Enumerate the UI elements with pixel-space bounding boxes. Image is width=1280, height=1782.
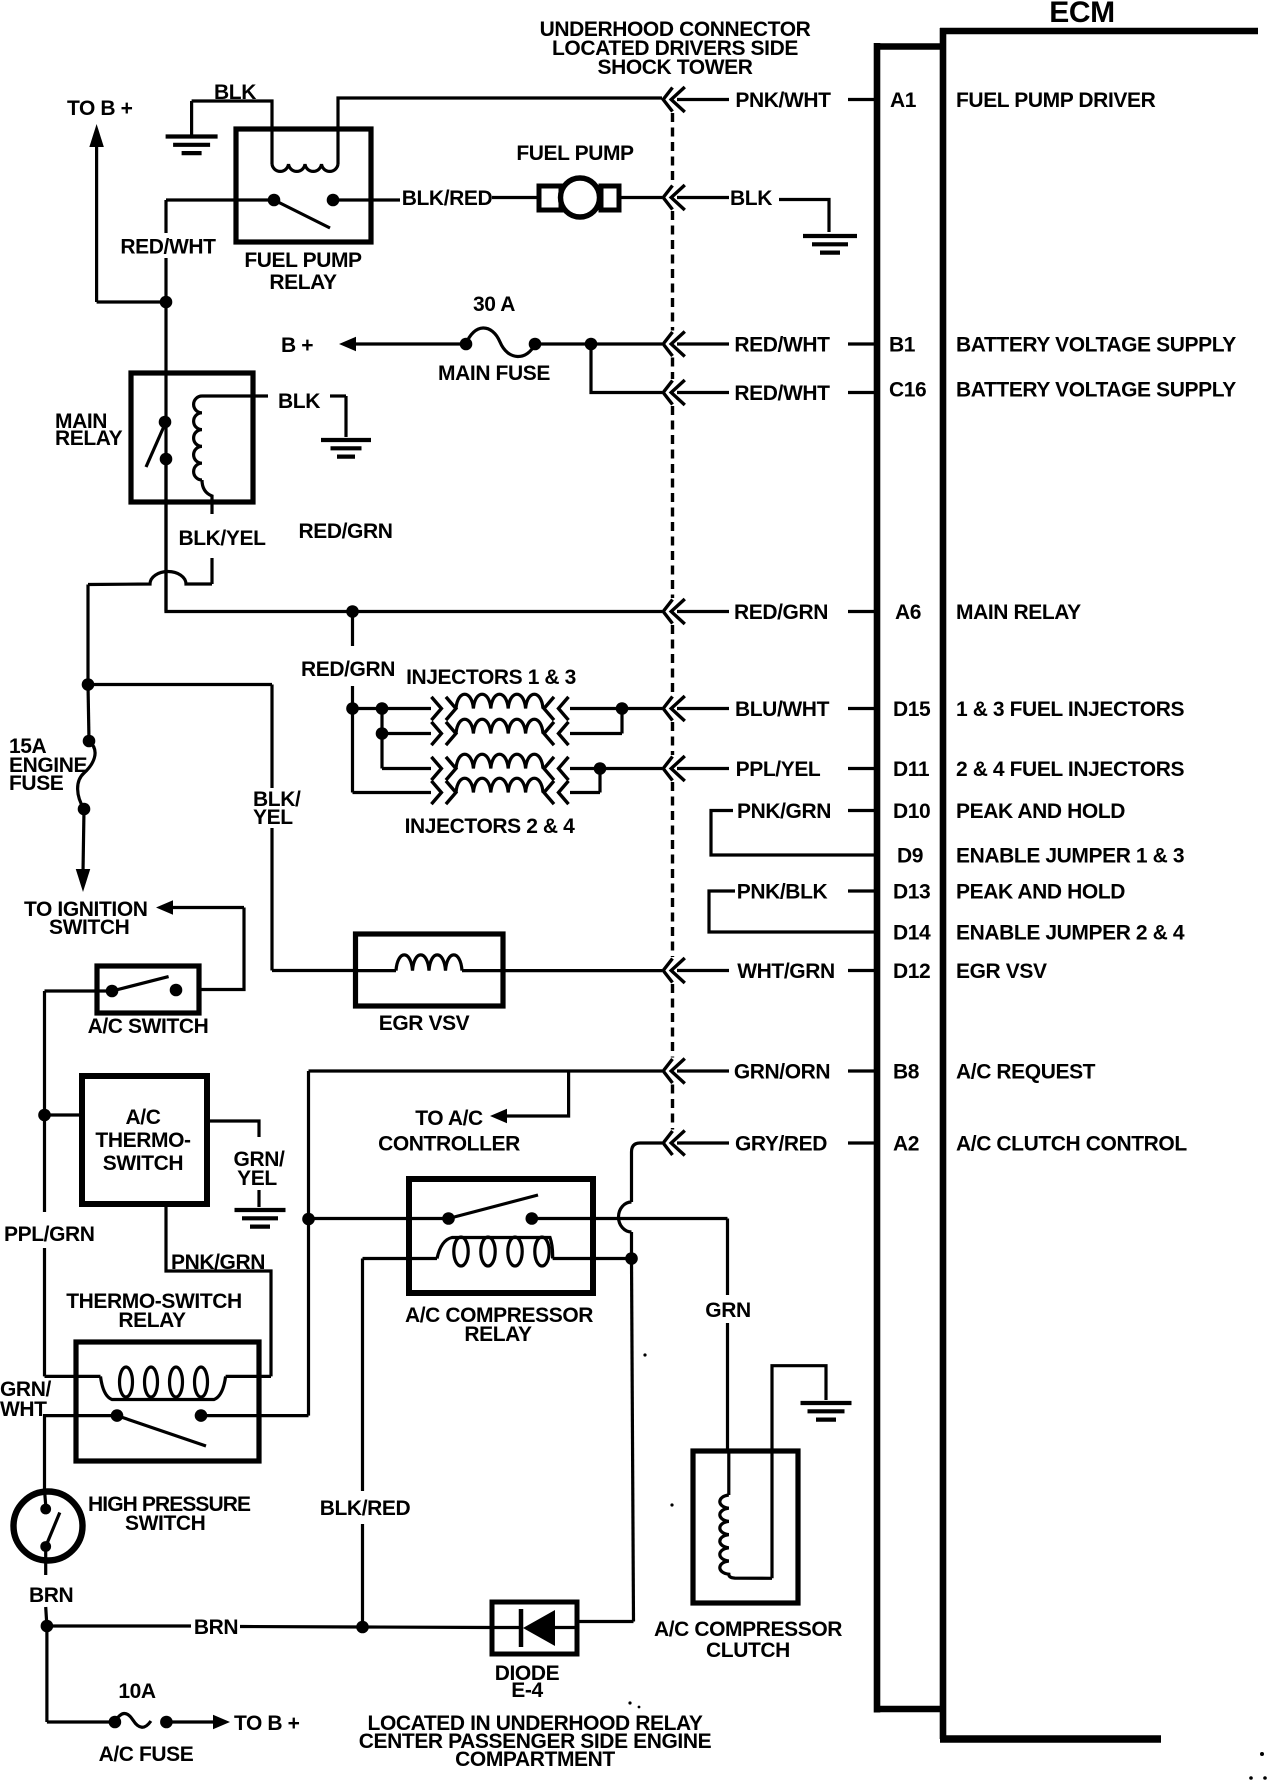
BLK wire from ground to relay coil: [192, 101, 272, 164]
wire BLK/RED to fuel pump: [492, 196, 539, 199]
svg-text:A/C REQUEST: A/C REQUEST: [956, 1061, 1096, 1084]
high pressure switch circle: [14, 1492, 83, 1561]
svg-text:B +: B +: [281, 334, 313, 357]
svg-text:CONTROLLER: CONTROLLER: [378, 1133, 520, 1156]
main relay coil: [194, 396, 202, 480]
diode symbol: [492, 1609, 577, 1647]
svg-text:A/C: A/C: [126, 1106, 161, 1129]
wire color label PNK/WHT at y=99.5: [677, 89, 877, 112]
svg-text:GRY/RED: GRY/RED: [735, 1132, 827, 1155]
svg-text:E-4: E-4: [511, 1679, 543, 1702]
svg-text:RED/GRN: RED/GRN: [301, 658, 395, 681]
thermo-switch relay label: [66, 1290, 242, 1332]
svg-text:ECM: ECM: [1049, 0, 1114, 29]
svg-text:D14: D14: [893, 922, 931, 945]
arrow up to B+: [89, 124, 104, 302]
wire color label WHT/GRN at y=970.5: [677, 960, 877, 983]
located in underhood relay center note: [359, 1712, 712, 1771]
svg-text:PEAK AND HOLD: PEAK AND HOLD: [956, 800, 1125, 823]
wire label BLK (fuel pump ground): [730, 187, 772, 210]
A/C fuse symbol: [47, 1713, 173, 1728]
A/C compressor relay box: [409, 1179, 593, 1293]
pin D15 label and ECM function text: [893, 698, 1185, 721]
fuel pump relay label: [244, 249, 362, 294]
thermo-switch relay box: [76, 1342, 259, 1461]
svg-text:TO A/C: TO A/C: [415, 1107, 483, 1130]
arrow right TO B+: [166, 1715, 230, 1730]
wire to C16 battery feed: [591, 344, 662, 393]
harness connector chevrons at y=768.5: [663, 756, 685, 781]
svg-text:PNK/GRN: PNK/GRN: [737, 800, 831, 823]
svg-text:D13: D13: [893, 881, 930, 904]
pin A6 label and ECM function text: [895, 601, 1081, 624]
fuel pump relay switch: [268, 194, 340, 228]
svg-text:30 A: 30 A: [473, 293, 515, 316]
svg-text:A6: A6: [895, 601, 921, 624]
svg-text:THERMO-: THERMO-: [95, 1129, 191, 1152]
wire color label RED/WHT at y=344: [677, 333, 877, 356]
wire ignition feed to A/C switch: [199, 908, 244, 990]
junction dot BRN: [41, 1620, 54, 1633]
svg-text:FUEL PUMP: FUEL PUMP: [244, 249, 362, 272]
svg-text:EGR VSV: EGR VSV: [379, 1012, 470, 1035]
svg-text:RED/WHT: RED/WHT: [120, 236, 216, 259]
BLK/RED wire from compressor relay coil: [361, 1259, 364, 1628]
junction dot on RED/WHT wire: [160, 296, 173, 309]
injector right join 2&4: [594, 762, 662, 792]
svg-text:YEL: YEL: [237, 1167, 277, 1190]
A/C switch box: [97, 966, 199, 1013]
svg-text:D12: D12: [893, 960, 930, 983]
wire EGR VSV to chevron D12: [503, 969, 662, 972]
BRN wire from pressure switch: [46, 1559, 47, 1626]
wire fuel pump to chevron: [619, 196, 662, 199]
pin D11 label and ECM function text: [893, 758, 1185, 781]
wire color label PPL/YEL at y=768.5: [677, 758, 877, 781]
wire from TO B+ arrow to RED/WHT node: [97, 300, 166, 303]
injector 4 (row 4): [353, 778, 601, 804]
main relay label: [55, 410, 123, 450]
wire color label BLU/WHT at y=708.5: [677, 698, 877, 721]
arrow left to B+: [339, 337, 466, 352]
svg-text:BLK: BLK: [278, 390, 320, 413]
svg-text:SWITCH: SWITCH: [103, 1152, 183, 1175]
svg-text:RED/GRN: RED/GRN: [298, 520, 392, 543]
wire color label RED/GRN at y=611.5: [677, 601, 877, 624]
svg-text:B1: B1: [889, 334, 916, 357]
15A engine fuse symbol: [78, 685, 96, 816]
wire from relay switch to BLK/RED: [333, 198, 400, 201]
svg-text:PNK/GRN: PNK/GRN: [171, 1251, 265, 1274]
svg-text:RELAY: RELAY: [118, 1309, 186, 1332]
fuel pump relay coil right lead to PNK/WHT: [338, 98, 662, 164]
wire label BLK/YEL: [178, 527, 266, 550]
wire label BRN (horizontal): [194, 1616, 238, 1639]
svg-text:WHT: WHT: [0, 1398, 47, 1421]
svg-text:A/C FUSE: A/C FUSE: [99, 1743, 194, 1766]
svg-text:ENABLE JUMPER 2 & 4: ENABLE JUMPER 2 & 4: [956, 922, 1185, 945]
A/C switch label: [88, 1015, 209, 1038]
EGR VSV box: [356, 934, 504, 1006]
PPL/GRN wire from A/C switch: [45, 991, 113, 1376]
svg-text:PEAK AND HOLD: PEAK AND HOLD: [956, 881, 1125, 904]
wire label BLK/RED (lower): [320, 1497, 411, 1520]
arrow left TO IGNITION SWITCH: [156, 900, 244, 915]
svg-text:FUEL PUMP DRIVER: FUEL PUMP DRIVER: [956, 89, 1156, 112]
wire label PNK/BLK (peak and hold jumper): [737, 880, 877, 903]
svg-text:BLK/RED: BLK/RED: [402, 187, 493, 210]
GRN/YEL wire from thermo-switch: [207, 1121, 259, 1207]
wire label PNK/GRN (thermo relay coil): [171, 1251, 265, 1274]
BLK/YEL wire with hop over RED/WHT: [88, 571, 212, 684]
svg-text:FUEL PUMP: FUEL PUMP: [516, 142, 634, 165]
jumper wire D10 to D9: [711, 811, 877, 856]
A6 RED/GRN wire to chevron: [353, 610, 663, 613]
clutch ground return: [772, 1366, 826, 1579]
svg-text:BRN: BRN: [194, 1616, 238, 1639]
svg-text:RELAY: RELAY: [55, 427, 123, 450]
harness connector chevrons at y=99.5: [663, 87, 685, 112]
A/C compressor clutch box: [693, 1451, 798, 1603]
svg-text:ENABLE JUMPER 1 & 3: ENABLE JUMPER 1 & 3: [956, 845, 1184, 868]
svg-text:RELAY: RELAY: [269, 271, 337, 294]
high pressure switch contacts: [40, 1490, 60, 1561]
svg-text:B8: B8: [893, 1061, 920, 1084]
wire label BLK (main relay ground): [278, 390, 320, 413]
svg-text:BLU/WHT: BLU/WHT: [735, 698, 830, 721]
arrow down to ignition switch: [76, 809, 91, 892]
ECM connector strip: [874, 43, 940, 1713]
main relay switch: [146, 416, 172, 467]
ground symbol clutch: [801, 1403, 852, 1420]
harness connector chevrons at y=1143: [663, 1131, 685, 1156]
high pressure switch label: [88, 1493, 251, 1535]
BRN horizontal wire: [47, 1626, 492, 1628]
30 A label: [473, 293, 515, 316]
wire label RED/GRN (injector feed): [301, 658, 395, 681]
svg-text:INJECTORS 2 & 4: INJECTORS 2 & 4: [405, 815, 576, 838]
wire label GRN: [705, 1299, 750, 1322]
pin A2 label and ECM function text: [893, 1133, 1187, 1156]
ground symbol for fuel pump: [803, 236, 857, 253]
main relay coil top lead to BLK ground: [202, 396, 346, 437]
junction dot compressor relay feed: [302, 1213, 315, 1226]
pin B8 label and ECM function text: [893, 1061, 1096, 1084]
svg-text:10A: 10A: [118, 1680, 156, 1703]
A/C compressor clutch coil: [720, 1495, 772, 1578]
wire label PNK/GRN (peak and hold jumper): [737, 800, 877, 823]
svg-text:CLUTCH: CLUTCH: [706, 1639, 790, 1662]
harness connector chevrons at y=611.5: [663, 599, 685, 624]
TO A/C CONTROLLER tap: [490, 1071, 569, 1123]
pin D12 label and ECM function text: [893, 960, 1047, 983]
A/C fuse label: [99, 1743, 194, 1766]
thermo-switch relay switch: [111, 1409, 208, 1446]
A/C compressor relay switch: [442, 1195, 538, 1225]
compressor relay coil right lead to GRY/RED: [553, 1257, 632, 1260]
svg-text:D15: D15: [893, 698, 931, 721]
pin D10 label and ECM function text: [893, 800, 1125, 823]
wire BLK to ground (right of boundary): [677, 198, 829, 233]
dashed underhood-connector boundary line: [671, 113, 674, 1130]
svg-text:A2: A2: [893, 1133, 919, 1156]
svg-text:BRN: BRN: [29, 1584, 73, 1607]
main relay coil bottom lead (BLK/YEL): [202, 480, 212, 584]
junction dot thermo-switch feed: [38, 1109, 51, 1122]
injector 1 (row 1): [353, 694, 623, 720]
svg-text:TO B +: TO B +: [234, 1712, 300, 1735]
harness connector chevrons at y=344: [663, 332, 685, 357]
injector 2 (row 3): [382, 754, 600, 780]
B+ label (main fuse): [281, 334, 313, 357]
compressor relay coil left lead (BLK/RED): [363, 1257, 438, 1260]
svg-text:A/C SWITCH: A/C SWITCH: [88, 1015, 209, 1038]
junction dot BLK/YEL at engine fuse: [82, 678, 95, 691]
A/C compressor clutch label: [654, 1618, 842, 1662]
A/C switch contacts: [106, 977, 183, 998]
wire main fuse to chevron B1: [535, 342, 662, 345]
A/C thermo-switch box: [82, 1076, 207, 1204]
junction dot injector feed: [346, 702, 359, 715]
wire into compressor relay switch: [309, 1217, 449, 1220]
svg-text:INJECTORS 1 & 3: INJECTORS 1 & 3: [406, 666, 576, 689]
svg-text:D11: D11: [893, 758, 930, 781]
junction dot RED/GRN: [346, 605, 359, 618]
svg-text:PPL/YEL: PPL/YEL: [736, 758, 821, 781]
ECM module outline: [940, 28, 1258, 1739]
svg-text:RED/GRN: RED/GRN: [734, 601, 828, 624]
wire to A/C thermo-switch: [45, 1113, 83, 1116]
wire color label GRY/RED at y=1143: [677, 1132, 877, 1155]
ground symbol main relay: [321, 440, 371, 457]
svg-text:EGR VSV: EGR VSV: [956, 960, 1047, 983]
ground symbol top-left (BLK wire): [166, 101, 218, 153]
EGR VSV label: [379, 1012, 470, 1035]
svg-text:GRN/ORN: GRN/ORN: [734, 1060, 830, 1083]
svg-text:WHT/GRN: WHT/GRN: [737, 960, 835, 983]
jumper wire D13 to D14: [709, 891, 877, 932]
svg-text:BLK: BLK: [730, 187, 772, 210]
diode label: [495, 1662, 560, 1702]
junction dot battery feed: [585, 338, 598, 351]
wire color label GRN/ORN at y=1071: [677, 1060, 877, 1083]
svg-text:SWITCH: SWITCH: [49, 916, 129, 939]
TO IGNITION SWITCH label: [24, 898, 148, 939]
A/C thermo-switch label: [95, 1106, 191, 1175]
svg-text:C16: C16: [889, 378, 926, 401]
svg-text:D10: D10: [893, 800, 930, 823]
wire label RED/GRN (upper): [298, 520, 392, 543]
svg-text:COMPARTMENT: COMPARTMENT: [455, 1748, 615, 1771]
BRN wire down to A/C fuse: [45, 1626, 48, 1722]
svg-text:1 & 3 FUEL INJECTORS: 1 & 3 FUEL INJECTORS: [956, 698, 1185, 721]
harness connector chevrons at y=708.5: [663, 696, 685, 721]
thermo relay coil left lead from PPL/GRN: [45, 1375, 101, 1378]
thermo relay coil right lead from PNK/GRN: [226, 1375, 271, 1378]
10A label: [118, 1680, 156, 1703]
wire compressor relay switch to GRN clutch feed: [532, 1219, 728, 1296]
wire B8 branch down to thermo relay switch: [307, 1219, 310, 1416]
GRY/RED wire from A2 with hop: [577, 1143, 662, 1622]
scan specks (noise): [628, 1353, 1266, 1779]
ground symbol GRN/YEL: [235, 1210, 286, 1227]
wire label RED/WHT (fuel pump relay feed): [120, 236, 216, 259]
fuel pump relay coil: [272, 164, 338, 171]
wire thermo relay switch to B8 branch: [201, 1414, 309, 1417]
TO A/C CONTROLLER label: [378, 1107, 520, 1156]
svg-text:YEL: YEL: [253, 806, 293, 829]
thermo-switch relay coil: [101, 1367, 226, 1400]
wire label BLK/ YEL (vertical branch): [253, 788, 301, 829]
underhood connector location note: [540, 18, 811, 79]
svg-text:SHOCK TOWER: SHOCK TOWER: [597, 56, 752, 79]
pin B1 label and ECM function text: [889, 334, 1236, 357]
svg-text:PNK/WHT: PNK/WHT: [735, 89, 831, 112]
svg-text:SWITCH: SWITCH: [125, 1512, 205, 1535]
wire label GRN/ YEL: [234, 1148, 285, 1190]
svg-text:D9: D9: [897, 845, 923, 868]
MAIN FUSE label: [438, 362, 550, 385]
diode E-4 box: [492, 1602, 577, 1654]
junction dot BRN at BLK/RED: [356, 1621, 369, 1634]
TO B+ label (top left): [67, 97, 133, 120]
svg-text:BATTERY VOLTAGE SUPPLY: BATTERY VOLTAGE SUPPLY: [956, 378, 1236, 401]
svg-text:RED/WHT: RED/WHT: [734, 333, 830, 356]
svg-text:A1: A1: [890, 89, 917, 112]
wire into fuel pump relay switch: [166, 198, 274, 201]
injector right join 1&3: [616, 702, 662, 733]
pin D13 label and ECM function text: [893, 881, 1125, 904]
svg-text:MAIN RELAY: MAIN RELAY: [956, 601, 1081, 624]
pin C16 label and ECM function text: [889, 378, 1236, 401]
harness connector chevrons at y=197.5: [663, 185, 685, 210]
pin D14 label and ECM function text: [893, 922, 1185, 945]
svg-text:MAIN FUSE: MAIN FUSE: [438, 362, 550, 385]
wire label BRN (vertical): [29, 1584, 73, 1607]
pin D9 label and ECM function text: [897, 845, 1184, 868]
ECM label: [1049, 0, 1114, 29]
svg-text:TO B +: TO B +: [67, 97, 133, 120]
TO B+ label (bottom): [234, 1712, 300, 1735]
junction dots injector branches: [376, 702, 389, 740]
A/C compressor relay label: [405, 1304, 593, 1346]
wire label BLK/RED (pump feed): [402, 187, 493, 210]
harness connector chevrons at y=970.5: [663, 958, 685, 983]
svg-text:PPL/GRN: PPL/GRN: [4, 1223, 95, 1246]
fuel pump label: [516, 142, 634, 165]
INJECTORS 2 & 4 label: [405, 815, 576, 838]
injector 3 (row 2): [382, 719, 622, 745]
wire label BLK (relay coil ground): [214, 81, 256, 104]
A/C compressor relay coil: [437, 1237, 553, 1266]
fuel pump relay box: [236, 129, 371, 242]
main fuse symbol: [460, 328, 542, 357]
pin A1 label and ECM function text: [890, 89, 1156, 112]
15A engine fuse label: [9, 735, 88, 795]
wire label PPL/GRN: [4, 1223, 95, 1246]
svg-text:2 & 4 FUEL INJECTORS: 2 & 4 FUEL INJECTORS: [956, 758, 1185, 781]
fuel pump symbol: [539, 178, 619, 217]
BLK/YEL wire to EGR VSV branch: [88, 685, 358, 971]
main relay box: [131, 373, 253, 502]
junction dot GRY/RED at coil: [625, 1252, 638, 1265]
svg-text:BLK/RED: BLK/RED: [320, 1497, 411, 1520]
wire color label RED/WHT at y=392.5: [677, 382, 877, 405]
svg-text:RED/WHT: RED/WHT: [734, 382, 830, 405]
RED/WHT vertical wire segments: [164, 200, 167, 612]
GRN wire to clutch: [728, 1323, 729, 1495]
injector feed wire RED/GRN: [351, 612, 354, 709]
GRN/WHT wire from relay switch: [45, 1416, 118, 1490]
PNK/GRN wire from thermo-switch to relay coil: [166, 1204, 271, 1376]
svg-text:A/C CLUTCH CONTROL: A/C CLUTCH CONTROL: [956, 1133, 1187, 1156]
RED/WHT wire corner to A6 row: [166, 459, 353, 612]
harness connector chevrons at y=392.5: [663, 380, 685, 405]
svg-text:GRN: GRN: [705, 1299, 750, 1322]
wire label GRN/ WHT: [0, 1378, 51, 1421]
harness connector chevrons at y=1071: [663, 1059, 685, 1084]
INJECTORS 1 & 3 label: [406, 666, 576, 689]
GRN/ORN wire B8 run: [309, 1071, 663, 1219]
svg-text:A/C COMPRESSOR: A/C COMPRESSOR: [654, 1618, 842, 1641]
svg-text:BATTERY VOLTAGE SUPPLY: BATTERY VOLTAGE SUPPLY: [956, 334, 1236, 357]
svg-text:FUSE: FUSE: [9, 772, 64, 795]
svg-text:PNK/BLK: PNK/BLK: [737, 880, 828, 903]
injector feed verticals: [353, 709, 383, 793]
svg-text:BLK/YEL: BLK/YEL: [178, 527, 266, 550]
EGR VSV coil: [358, 955, 503, 971]
svg-text:RELAY: RELAY: [464, 1323, 532, 1346]
